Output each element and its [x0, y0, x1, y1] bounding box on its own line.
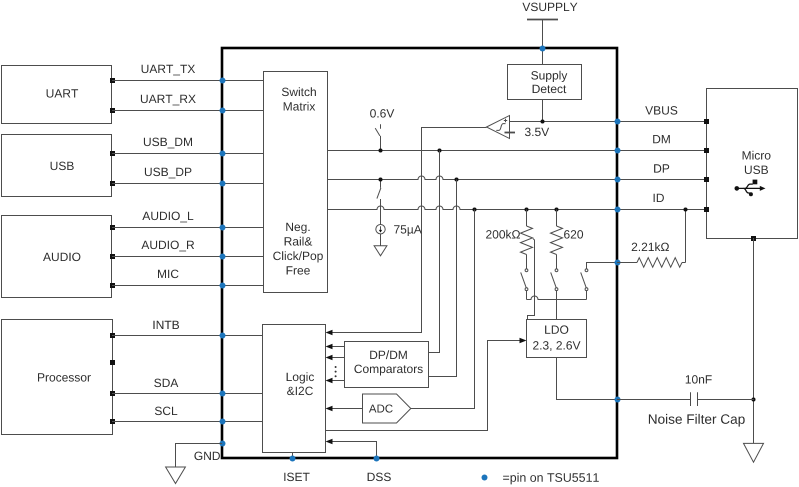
wire INTB [112, 335, 263, 337]
wire VBUS (comparator input to Micro USB) [510, 121, 705, 123]
pin VSUPPLY [540, 46, 546, 52]
pin VBUS [615, 119, 621, 125]
block LDO 2.3 2.6V [527, 320, 587, 358]
label AUDIO_R [141, 241, 194, 252]
wire 2.21k up to ID [685, 210, 687, 263]
label 0.6V [370, 109, 394, 118]
arrow into Logic 3 [326, 378, 333, 384]
pin DM [615, 148, 621, 154]
label USB_DP [145, 168, 192, 179]
block Micro USB [704, 89, 798, 242]
wire S5 top to 2.21k pin [587, 263, 618, 270]
label 10nF [686, 375, 712, 384]
wire DSS to Logic [332, 442, 377, 459]
label INTB [153, 321, 179, 329]
block USB [2, 135, 116, 197]
wire DP/DM comparators out 3 [332, 380, 345, 382]
wire LDO out to pin [557, 357, 618, 400]
label AUDIO_L [142, 212, 193, 223]
label ISET [284, 473, 309, 482]
block UART [2, 66, 116, 124]
label 200kOhm [486, 230, 520, 239]
pin SDA [220, 391, 226, 397]
label UART_RX [141, 95, 196, 106]
wire current source to ground [380, 234, 382, 246]
node ID junction 200k [525, 208, 529, 212]
wire 200k tap to LDO [528, 239, 535, 320]
wire DM tap to DP/DM comparators [428, 151, 440, 353]
node DM junction [438, 149, 442, 153]
resistor R 2.21k external [617, 258, 686, 268]
pin DP [615, 177, 621, 183]
wire DP/DM comparators out 1 [332, 346, 345, 348]
pin INTB [220, 333, 226, 339]
node DM-S1 junction [379, 149, 383, 153]
wire Logic to LDO [325, 341, 522, 431]
label legend [503, 473, 599, 485]
pin ID [615, 207, 621, 213]
pin USB_DP [220, 181, 226, 187]
comparator 3.5V hysteresis [487, 116, 516, 139]
label 3.5V [525, 128, 549, 137]
arrow into Logic 1 [326, 344, 333, 350]
label UART_TX [142, 65, 196, 76]
capacitor C 10nF [617, 392, 754, 406]
node ID junction 2.21k [684, 208, 688, 212]
ground symbol (75uA) [374, 246, 387, 256]
pin AUDIO_L [220, 225, 226, 231]
block AUDIO [2, 216, 116, 298]
pin UART_TX [220, 78, 226, 84]
label DSS [368, 473, 391, 482]
ADC block [363, 394, 411, 423]
wire comparator output to Logic [332, 128, 487, 333]
arrow into Logic (ADC) [326, 406, 333, 412]
icon USB trident [735, 180, 766, 197]
label VBUS [645, 106, 677, 115]
pin GND [220, 441, 226, 447]
node VBUS junction [541, 120, 545, 124]
label DP [654, 164, 669, 172]
wire SDA [112, 393, 263, 395]
block Supply Detect [508, 65, 582, 100]
label USB_DM [144, 138, 192, 149]
resistor R 620 [551, 210, 563, 270]
wire GND [176, 444, 223, 468]
label MIC [158, 270, 179, 279]
switch S5 [581, 269, 588, 300]
label 620 [564, 230, 583, 239]
arrow into Logic 2 [326, 355, 333, 361]
switch S4 [551, 269, 558, 320]
wire VSUPPLY to Supply Detect [542, 20, 544, 65]
node ID junction 620 [555, 208, 559, 212]
pin USB_DM [220, 151, 226, 157]
wire DP (switch matrix to Micro USB, hops over verticals) [327, 176, 704, 179]
wire UART_TX [112, 80, 264, 82]
node DP junction [455, 178, 459, 182]
wire MIC [112, 285, 264, 287]
wire DM (switch matrix to Micro USB) [327, 150, 704, 152]
wire AUDIO_L [112, 227, 264, 229]
label DM [653, 135, 670, 143]
wire Micro USB shield to ground [753, 238, 755, 443]
pin UART_RX [220, 108, 226, 114]
pin DSS [374, 456, 380, 462]
node DP-S2 junction [379, 178, 383, 182]
wire Supply Detect to VBUS node [542, 100, 544, 122]
power flag VSUPPLY [522, 3, 577, 20]
block Logic & I2C [263, 325, 326, 453]
pin 2.21k [615, 260, 621, 266]
arrow into Logic (comparator) [326, 330, 333, 336]
legend pin symbol [482, 475, 488, 481]
label GND [194, 452, 220, 461]
pin ISET [290, 456, 296, 462]
wire AUDIO_R [112, 256, 264, 258]
block Processor [2, 320, 116, 435]
node ID junction to ADC [473, 208, 477, 212]
wire UART_RX [112, 110, 264, 112]
wire switch common bus (hops over LDO tap) [527, 296, 587, 299]
pin AUDIO_R [220, 254, 226, 260]
resistor R 200k [521, 210, 533, 270]
block DP/DM Comparators [345, 342, 429, 388]
switch S1 0.6V to DM [375, 124, 380, 150]
label ID [654, 194, 664, 202]
arrow into Logic (DSS) [326, 439, 333, 445]
node noise filter junction [752, 398, 756, 402]
wire SCL [112, 421, 263, 423]
pin SCL [220, 419, 226, 425]
label SDA [154, 379, 178, 388]
label SCL [155, 407, 177, 416]
wire ADC out [332, 408, 363, 410]
arrow into LDO [520, 338, 527, 344]
wire DP tap to DP/DM comparators [428, 180, 457, 377]
label 2.21kOhm [632, 242, 669, 251]
ground symbol (GND pin) [166, 467, 186, 484]
block Switch Matrix [264, 72, 328, 293]
ground symbol (Micro USB) [744, 443, 764, 462]
ellipsis dots [335, 366, 337, 377]
wire USB_DM [112, 153, 264, 155]
switch S2 DP to current source [377, 180, 381, 225]
switch S3 [521, 269, 528, 300]
label 75uA [394, 225, 422, 236]
wire USB_DP [112, 183, 264, 185]
label Noise Filter Cap [649, 414, 745, 427]
pin MIC [220, 283, 226, 289]
wire DP/DM comparators out 2 [332, 357, 345, 359]
IC boundary TSU5511 [222, 48, 617, 458]
current source 75uA [376, 225, 385, 234]
pin LDO out [615, 397, 621, 403]
wire ID tap to ADC [411, 210, 475, 409]
wire ID (switch matrix to Micro USB, hops over verticals) [327, 206, 704, 209]
wire ISET stub [292, 453, 294, 459]
